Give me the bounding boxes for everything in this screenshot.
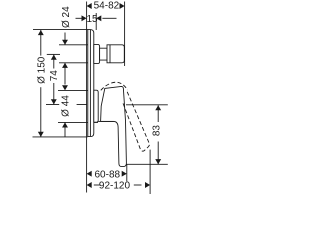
arrow 92-120 left	[87, 182, 92, 188]
arrow O150 bottom	[38, 132, 44, 137]
wire: knob bottom extension (O24 bottom ref)	[59, 62, 88, 64]
arrow O24 down	[62, 40, 68, 45]
arrow 83 bottom	[155, 159, 161, 164]
arrow 15 right-pointing	[82, 15, 87, 21]
arrow 54-82 left	[87, 3, 92, 9]
dashed lever (rotated handle position)	[123, 92, 149, 151]
arrow O24 up	[62, 63, 68, 68]
wire: 83 top extension line	[126, 104, 168, 106]
dimension 92-120 tails	[94, 184, 100, 186]
knob bevel line	[109, 45, 111, 63]
wire: extension line at knob face (54-82 right ref)	[124, 2, 126, 67]
wire: extension line right of 15 dim	[95, 13, 97, 30]
wire: handle centerline ticks (74 bottom ref)	[46, 104, 59, 106]
arrow 15 left-pointing	[96, 15, 101, 21]
svg-text:83: 83	[151, 125, 162, 137]
wire: 83 bottom extension line	[121, 163, 168, 165]
svg-text:15: 15	[86, 14, 98, 25]
dimension 74 line (broken at label)	[53, 55, 55, 69]
svg-text:54-82: 54-82	[94, 1, 120, 12]
dimension 15 tails	[76, 17, 82, 19]
escutcheon plate (side profile)	[88, 30, 94, 137]
cartridge neck	[100, 48, 107, 60]
cartridge knob	[107, 45, 124, 63]
hub bottom edge line	[98, 120, 113, 122]
dashed hub arc (rotated handle position)	[101, 82, 128, 90]
arrow 83 top	[155, 105, 161, 110]
dimension 83 line (broken at label)	[157, 105, 159, 122]
handle base escutcheon	[94, 90, 98, 122]
arrow O44 down	[62, 85, 68, 90]
svg-text:Ø 150: Ø 150	[37, 56, 48, 84]
svg-text:74: 74	[49, 70, 60, 82]
wire: hub top extension (O44 top ref)	[58, 89, 96, 91]
svg-text:92-120: 92-120	[99, 181, 131, 192]
arrow O44 up	[62, 122, 68, 127]
arrow 74 top	[51, 55, 57, 60]
arrow 60-88 right	[122, 171, 127, 177]
plate inner contour line	[89, 30, 91, 136]
cartridge flange	[94, 44, 100, 63]
wire: stem centerline tick (74 top ref)	[47, 53, 60, 55]
dimension O150 line (broken at label)	[40, 30, 42, 56]
wire: hub bottom extension (O44 bottom ref)	[58, 121, 98, 123]
svg-text:Ø 24: Ø 24	[61, 6, 72, 28]
dimension O24/O44 shared shaft	[64, 63, 66, 85]
wire: knob top extension (O24 top ref)	[59, 44, 88, 46]
arrow O150 top	[38, 30, 44, 35]
dimension O44 lower shaft	[64, 122, 66, 137]
arrow 74 bottom	[51, 99, 57, 104]
arrow 92-120 right	[145, 182, 150, 188]
svg-text:60-88: 60-88	[95, 169, 121, 180]
arrow 54-82 right	[120, 3, 125, 9]
arrow 60-88 left	[87, 171, 92, 177]
svg-text:Ø 44: Ø 44	[61, 95, 72, 117]
wire: lever tip drop line (60-88 right ref)	[126, 164, 128, 181]
handle hub and lever (solid position)	[101, 86, 127, 166]
dimension O24 upper shaft	[64, 33, 66, 45]
wire: dashed lever tip drop line (92-120 right ref)	[149, 150, 151, 194]
wire: plate top extension line (O150 top ref)	[33, 29, 88, 31]
wire: wall / mounting-plane extension line	[86, 2, 88, 193]
wire: plate bottom extension line (O150 bottom ref)	[33, 136, 88, 138]
